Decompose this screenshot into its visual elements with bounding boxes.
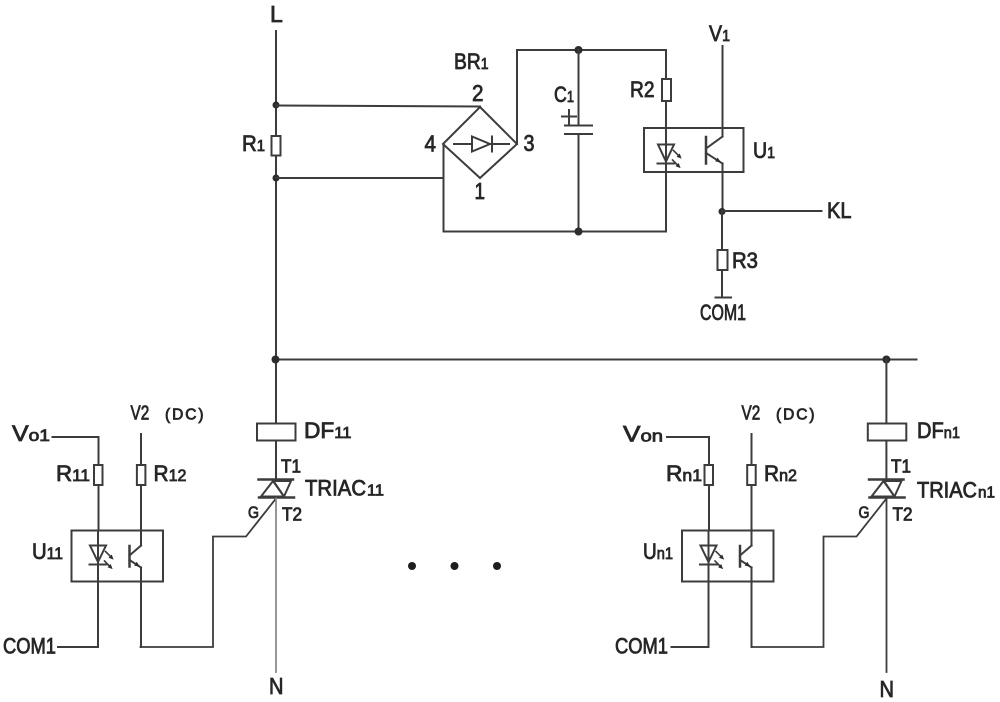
wire Un1 LED vertical xyxy=(708,531,710,648)
svg-text:N: N xyxy=(880,676,895,702)
wire to bridge pin 2 xyxy=(276,106,480,107)
svg-text:COM1: COM1 xyxy=(3,634,56,659)
svg-text:V2: V2 xyxy=(131,403,150,425)
triac TRIAC11 xyxy=(259,480,295,498)
label G xyxy=(248,503,259,522)
label Rn2 xyxy=(764,461,797,486)
resistor R2 xyxy=(662,79,671,101)
label U11 xyxy=(32,539,63,564)
label G right xyxy=(859,503,870,522)
pin 4 label xyxy=(425,131,437,157)
label TRIAC11 xyxy=(305,476,384,501)
wire TRIAC11 gate path xyxy=(141,499,277,648)
wire Un1 emitter down xyxy=(751,568,753,648)
node Von label xyxy=(623,422,663,447)
phototransistor inside Un1 xyxy=(740,546,752,568)
node KL junction dot xyxy=(719,208,726,215)
wire bottom rail of BR1 cell xyxy=(444,231,667,233)
svg-text:T1: T1 xyxy=(891,457,911,477)
wire main rail xyxy=(276,359,917,361)
node V2 (DC) label right xyxy=(742,403,815,425)
label T2 right xyxy=(893,505,913,525)
label DF11 xyxy=(304,418,352,443)
node junction dot upper (276,105) xyxy=(273,102,280,109)
svg-text:3: 3 xyxy=(524,130,535,156)
node COM1 label bottom-left xyxy=(3,634,56,659)
svg-text:G: G xyxy=(248,503,259,522)
wire COM1 to Un1 LED cathode xyxy=(672,646,709,648)
resistor Rn2 xyxy=(747,465,756,485)
LED inside Un1 xyxy=(700,546,724,570)
node N label right xyxy=(880,676,895,702)
node rail dot left xyxy=(272,356,280,364)
node rail dot right xyxy=(882,356,890,364)
label T2 xyxy=(282,505,302,525)
wire TRIACn1 T2 down to N (gray) xyxy=(886,499,888,673)
dots ellipsis xyxy=(408,562,501,570)
svg-text:T2: T2 xyxy=(282,505,302,525)
svg-text:1: 1 xyxy=(475,178,486,204)
node L label xyxy=(270,1,283,27)
label T1 xyxy=(281,457,301,477)
node junction dot bottom rail xyxy=(575,228,583,236)
label R2 xyxy=(630,77,655,102)
node junction dot lower (276,178) xyxy=(273,175,280,182)
wire Von to Rn1 xyxy=(667,437,709,531)
wire TRIACn1 gate path xyxy=(752,499,887,648)
wire TRIAC11 T2 down to N (gray) xyxy=(275,499,277,673)
phototransistor inside U1 xyxy=(706,137,723,164)
wire L vertical (L down to DF11 drop) xyxy=(275,31,277,424)
node COM1 label bottom-right xyxy=(615,634,668,659)
label C1 xyxy=(554,82,574,107)
svg-text:L: L xyxy=(270,1,283,27)
op-amp U1 optocoupler box xyxy=(644,128,744,172)
node Vo1 label xyxy=(12,421,50,446)
svg-text:2: 2 xyxy=(472,80,484,106)
wire V2 down through Rn2 to Un1 collector xyxy=(751,434,753,546)
wire V1 down to U1 collector xyxy=(722,46,724,137)
label V1 xyxy=(709,21,730,46)
svg-text:V2: V2 xyxy=(742,403,761,425)
svg-text:n1: n1 xyxy=(978,485,995,502)
wire Vo1 to R11 xyxy=(53,437,99,531)
label DFn1 xyxy=(917,418,960,443)
phototransistor inside U11 xyxy=(130,546,142,568)
wire R2 drop / LED U1 vertical xyxy=(665,50,667,232)
svg-text:T1: T1 xyxy=(281,457,301,477)
node KL label xyxy=(827,198,852,223)
op-amp Un1 optocoupler box xyxy=(682,531,774,582)
wire bridge pin3 riser up xyxy=(516,50,518,144)
node V2 (DC) label left xyxy=(131,403,204,425)
wire U11 emitter down xyxy=(140,568,142,648)
pin 3 label xyxy=(524,130,535,156)
triac TRIACn1 xyxy=(869,480,905,498)
resistor R12 xyxy=(137,465,146,485)
svg-text:R2: R2 xyxy=(630,77,655,102)
label T1 right xyxy=(891,457,911,477)
svg-text:4: 4 xyxy=(425,131,437,157)
resistor R11 xyxy=(94,465,103,485)
label Rn1 xyxy=(666,461,702,486)
svg-text:11: 11 xyxy=(367,483,384,500)
wire top rail to R2 xyxy=(517,49,666,51)
label R3 xyxy=(732,248,758,273)
wire DFn1 to TRIACn1 xyxy=(885,441,887,480)
svg-text:T2: T2 xyxy=(893,505,913,525)
svg-text:G: G xyxy=(859,503,870,522)
pin 1 label xyxy=(475,178,486,204)
bridge rectifier BR1 diamond xyxy=(443,107,517,178)
wire DF11 to TRIAC11 xyxy=(275,441,277,480)
diode inside BR1 xyxy=(454,137,509,152)
terminal bar COM1 xyxy=(716,297,732,299)
label U1 xyxy=(753,138,775,163)
svg-text:R3: R3 xyxy=(732,248,758,273)
label R1 xyxy=(242,131,265,156)
label Un1 xyxy=(643,539,673,564)
wire to bridge pin 4 riser xyxy=(276,177,444,179)
wire KL node down through R3 xyxy=(721,212,723,298)
label BR1 xyxy=(454,49,489,74)
wire right drop from rail xyxy=(885,360,887,424)
label TRIACn1 xyxy=(917,478,995,503)
resistor R3 xyxy=(718,250,728,270)
node N label left xyxy=(269,673,284,699)
LED inside U11 xyxy=(90,546,114,570)
svg-text:KL: KL xyxy=(827,198,852,223)
svg-text:COM1: COM1 xyxy=(700,300,746,325)
fuse DF11 xyxy=(257,424,296,441)
pin 2 label xyxy=(472,80,484,106)
wire bridge pin4 riser down to bottom rail xyxy=(443,144,445,232)
LED inside U1 xyxy=(658,145,682,169)
capacitor C1 xyxy=(562,50,592,232)
node COM1 label (top) xyxy=(700,300,746,325)
wire COM1 to LED cathode xyxy=(58,646,98,648)
wire V2 down through R12 to U11 collector xyxy=(140,434,142,546)
wire U1 emitter down to KL node xyxy=(722,164,724,212)
label R11 xyxy=(56,461,90,486)
op-amp U11 optocoupler box xyxy=(72,531,164,582)
wire U11 LED vertical xyxy=(97,531,99,648)
label R12 xyxy=(154,461,187,486)
svg-text:TRIAC: TRIAC xyxy=(305,476,366,501)
svg-text:TRIAC: TRIAC xyxy=(917,478,977,503)
resistor Rn1 xyxy=(705,465,714,485)
svg-text:N: N xyxy=(269,673,284,699)
node junction dot top rail xyxy=(575,46,583,54)
fuse DFn1 xyxy=(868,424,907,441)
resistor R1 xyxy=(272,136,281,156)
svg-text:COM1: COM1 xyxy=(615,634,668,659)
wire KL horizontal xyxy=(722,210,822,212)
